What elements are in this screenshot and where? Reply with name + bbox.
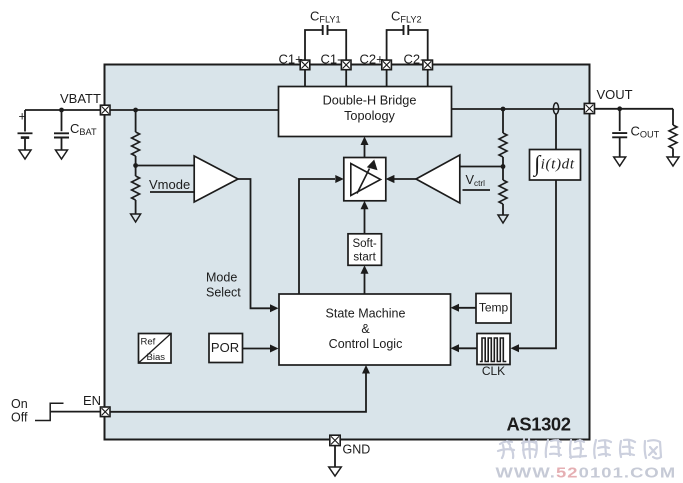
- wire Vctrl amp output: [393, 178, 416, 180]
- wire VBATT rail: [25, 109, 279, 111]
- op-amp Vmode comparator: [194, 156, 238, 202]
- wire divider1 to ground: [135, 200, 137, 214]
- wire pin C1- to bridge: [345, 70, 347, 87]
- svg-text:Double-H Bridge: Double-H Bridge: [323, 93, 417, 107]
- wire battery drop: [24, 110, 26, 132]
- wire state machine to softstart: [364, 272, 366, 295]
- svg-text:Vmode: Vmode: [149, 177, 190, 192]
- watermark chinese text: [498, 439, 661, 459]
- svg-text:Ref: Ref: [141, 337, 156, 348]
- svg-text:Bias: Bias: [147, 352, 166, 363]
- wire CBAT to ground: [61, 138, 63, 151]
- svg-text:State Machine: State Machine: [326, 307, 406, 321]
- wire VOUT rail: [595, 108, 674, 110]
- block Ref Bias: [139, 334, 172, 364]
- arrow into modulator right: [386, 175, 395, 183]
- ground under CBAT: [56, 150, 68, 159]
- wire modulator to bridge: [364, 141, 366, 158]
- battery B1: [18, 132, 33, 134]
- modulator adjust arrow: [357, 169, 370, 194]
- wire divider2 mid: [502, 157, 504, 180]
- pin C1+: [300, 60, 310, 70]
- arrow into modulator bottom: [361, 201, 369, 210]
- svg-text:WWW.520101.COM: WWW.520101.COM: [496, 464, 677, 481]
- wire CLK to state machine: [457, 347, 478, 349]
- wire Vctrl input: [463, 189, 491, 191]
- block Double-H Bridge Topology: [279, 87, 452, 137]
- chip body outline: [105, 65, 590, 440]
- pin EN: [100, 407, 110, 417]
- block integrator: [530, 150, 581, 181]
- arrow Vctrl output into modulator: [386, 175, 395, 183]
- wire COUT drop: [619, 109, 621, 131]
- wire CBAT drop: [61, 110, 63, 131]
- clock waveform glyph: [480, 338, 507, 362]
- capacitor CFLY1: [323, 25, 328, 35]
- arrow into state machine mode input: [270, 304, 279, 312]
- wire pin C2- to bridge: [427, 70, 429, 87]
- block Soft-start: [348, 234, 382, 265]
- node divider2 top: [501, 107, 506, 112]
- wire EN to state machine: [110, 372, 366, 412]
- svg-text:CBAT: CBAT: [70, 121, 97, 137]
- EN step waveform: [35, 403, 64, 420]
- svg-text:COUT: COUT: [631, 124, 660, 140]
- wire pin C2+ to bridge: [386, 70, 388, 87]
- resistor divider2 upper: [499, 133, 507, 157]
- wire COUT to ground: [619, 137, 621, 157]
- ground under divider1: [131, 214, 141, 222]
- svg-text:&: &: [361, 322, 370, 336]
- wire C1+ to CFLY1 left: [305, 30, 323, 60]
- wire POR to state machine: [243, 348, 273, 350]
- node divider1 top: [133, 108, 138, 113]
- arrow into softstart bottom: [361, 265, 369, 274]
- wire sense to integrator: [555, 114, 557, 150]
- resistor divider1 lower: [132, 176, 140, 200]
- modulator amp symbol: [351, 164, 381, 196]
- svg-text:Temp: Temp: [479, 301, 509, 315]
- RefBias diagonal: [139, 334, 172, 364]
- wire battery to ground: [24, 139, 26, 150]
- svg-text:C2-: C2-: [404, 52, 425, 67]
- svg-text:Control Logic: Control Logic: [329, 337, 403, 351]
- svg-text:C1+: C1+: [279, 52, 303, 67]
- wire integrator to CLK: [517, 180, 556, 348]
- node COUT top: [617, 106, 622, 111]
- pin VOUT: [584, 103, 594, 113]
- wire GND to ground: [334, 445, 336, 467]
- svg-text:C1-: C1-: [321, 52, 342, 67]
- arrow into state machine from Temp: [451, 304, 460, 312]
- wire C2+ to CFLY2 left: [387, 30, 404, 60]
- arrow into modulator left: [335, 175, 344, 183]
- wire divider2 upper: [502, 109, 504, 133]
- node divider2 tap: [501, 164, 506, 169]
- wire divider1 upper: [135, 110, 137, 132]
- arrow into state machine from CLK: [451, 344, 460, 352]
- pin C1-: [341, 60, 351, 70]
- svg-text:POR: POR: [211, 340, 239, 355]
- svg-text:Topology: Topology: [344, 109, 395, 123]
- ground under divider2: [498, 215, 508, 223]
- wire softstart to modulator: [364, 207, 366, 234]
- wire CFLY2 right to C2-: [408, 30, 427, 60]
- wire pin C1+ to bridge: [304, 70, 306, 87]
- wire tap to Vmode amp: [136, 165, 194, 167]
- watermark url text: [496, 464, 677, 481]
- wire bridge right to VOUT: [452, 108, 585, 110]
- ground under GND pin: [329, 467, 342, 476]
- svg-text:GND: GND: [343, 443, 371, 457]
- svg-text:CLK: CLK: [482, 364, 505, 378]
- resistor load: [669, 125, 677, 148]
- arrow into bridge bottom: [361, 137, 369, 146]
- capacitor CBAT: [54, 133, 69, 137]
- block modulator U1: [344, 158, 386, 201]
- svg-text:+: +: [19, 110, 26, 124]
- svg-text:Mode: Mode: [206, 271, 237, 285]
- pin C2-: [423, 60, 433, 70]
- resistor divider2 lower: [499, 180, 507, 204]
- wire divider2 to ground: [502, 204, 504, 215]
- capacitor COUT: [612, 133, 627, 137]
- capacitor CFLY2: [404, 25, 409, 35]
- svg-text:EN: EN: [83, 393, 101, 408]
- current sense ellipse: [553, 103, 558, 114]
- ground under load: [667, 157, 679, 166]
- svg-text:CFLY1: CFLY1: [310, 9, 341, 25]
- svg-text:Select: Select: [206, 286, 241, 300]
- wire state machine to modulator left: [299, 179, 335, 294]
- svg-text:C2+: C2+: [360, 52, 384, 67]
- pin GND: [330, 435, 340, 445]
- wire load to ground: [672, 149, 674, 158]
- op-amp Vctrl: [416, 155, 460, 203]
- ground under battery: [19, 150, 31, 159]
- wire EN outside: [50, 411, 100, 413]
- wire Vmode amp output: [238, 179, 272, 308]
- svg-text:VBATT: VBATT: [60, 91, 101, 106]
- wire CFLY1 right to C1-: [328, 30, 347, 60]
- wire Vmode input: [150, 191, 194, 193]
- ground under COUT: [614, 157, 626, 166]
- block POR: [209, 334, 243, 363]
- block State Machine: [279, 294, 451, 365]
- node divider1 tap: [133, 163, 138, 168]
- svg-text:Off: Off: [11, 411, 28, 425]
- arrow into state machine bottom: [362, 365, 370, 374]
- wire load resistor drop: [672, 109, 674, 125]
- wire tap to Vctrl amp: [460, 166, 503, 168]
- arrow into CLK right: [511, 344, 520, 352]
- pin VBATT: [100, 105, 110, 115]
- svg-text:start: start: [353, 252, 376, 264]
- svg-text:On: On: [11, 397, 28, 411]
- wire divider1 mid: [135, 156, 137, 176]
- node CBAT top: [59, 108, 64, 113]
- arrow into state machine from POR: [270, 345, 279, 353]
- wire Temp to state machine: [457, 307, 476, 309]
- svg-text:AS1302: AS1302: [507, 414, 571, 435]
- svg-text:CFLY2: CFLY2: [391, 9, 422, 25]
- resistor divider1 upper: [132, 132, 140, 156]
- block Temp: [476, 294, 511, 324]
- block CLK: [477, 334, 510, 365]
- svg-text:Soft-: Soft-: [352, 238, 376, 250]
- pin C2+: [382, 60, 392, 70]
- svg-text:VOUT: VOUT: [597, 87, 633, 102]
